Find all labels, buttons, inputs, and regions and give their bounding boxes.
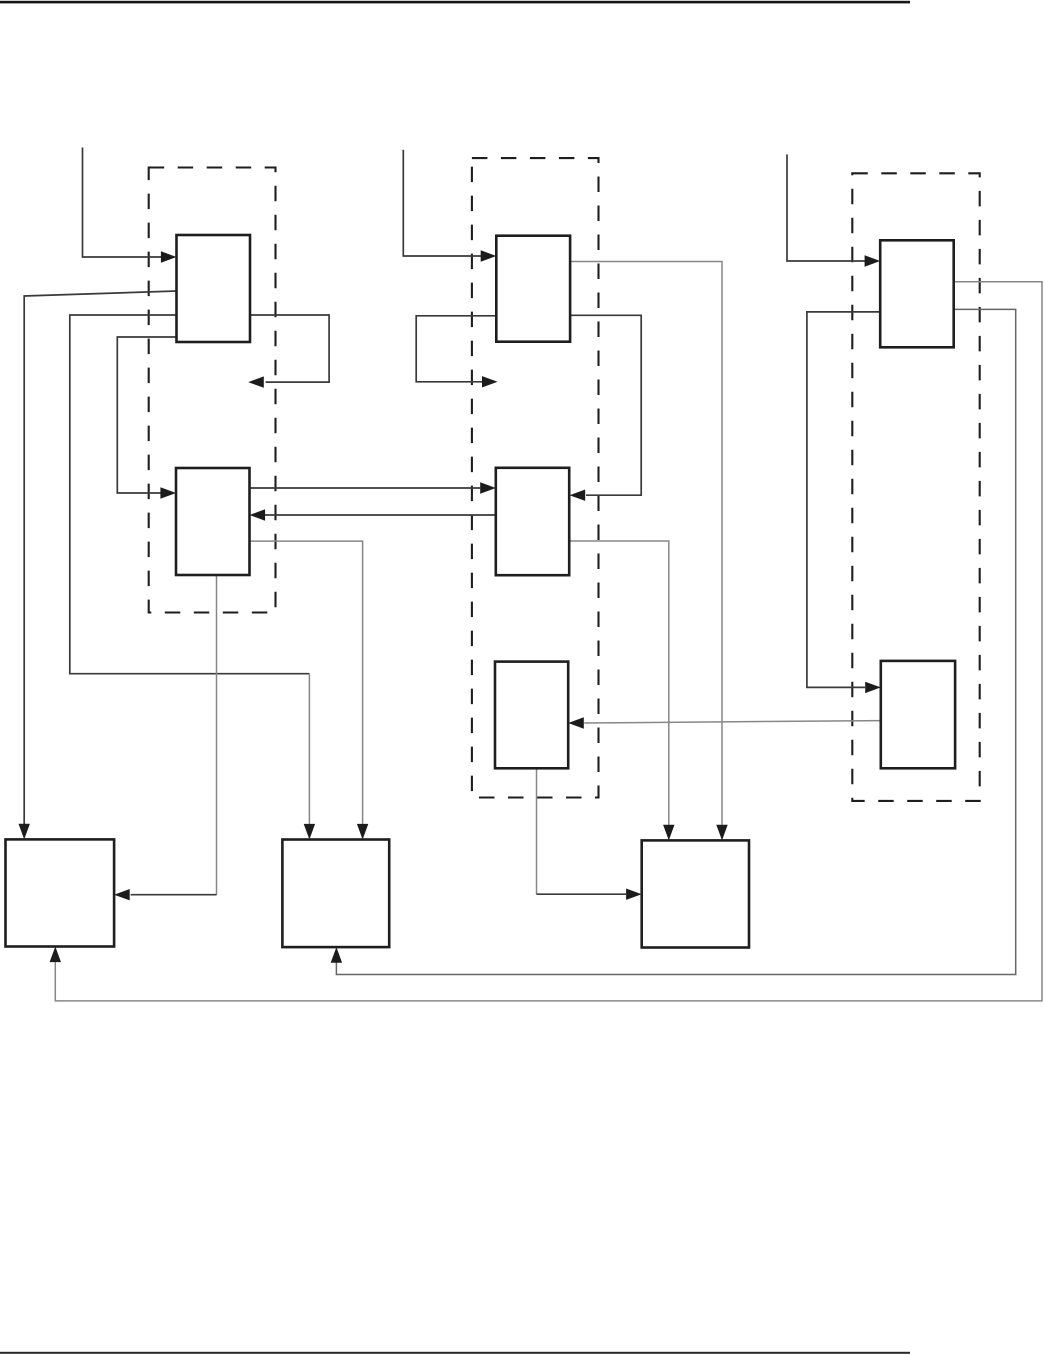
wire B1 left long to BL top: [24, 291, 176, 824]
block B2: [176, 468, 250, 575]
wire R1 left to R2 left: [807, 312, 880, 688]
arrow into M2 right: [570, 490, 586, 501]
header rule: [0, 1, 910, 4]
wire M2 left to B2 right: [265, 514, 496, 516]
block M3: [495, 662, 568, 769]
wire into BL right arrow: [131, 894, 217, 896]
arrow down into BL top: [19, 824, 30, 840]
block M2: [496, 468, 569, 575]
wire B1 left to B2 left: [117, 337, 176, 493]
wire M1 left loopback: [416, 316, 496, 382]
wire vertical into BML arrow 1: [308, 674, 310, 825]
block M1: [496, 236, 570, 342]
wire input stub into block B1: [83, 148, 162, 258]
wire M3 bottom down: [536, 768, 538, 894]
wire B2 right down to BML top: [250, 541, 363, 825]
arrow into B2 right: [250, 509, 266, 520]
arrow down into BMR top 2: [716, 825, 727, 841]
arrow into M1 left: [481, 250, 497, 261]
arrow down into BML top 1: [304, 824, 315, 840]
arrow right loopback middle module: [482, 376, 498, 387]
arrow into B1 left: [161, 251, 177, 262]
arrow into R2 left: [865, 682, 881, 693]
wire M2 right down to BMR top: [569, 541, 669, 825]
block BL: [6, 839, 115, 946]
block BML: [282, 840, 389, 948]
wire R1 right outer feedback to BL bottom: [55, 282, 1042, 1001]
block B1: [177, 235, 251, 342]
wire into BMR left arrow: [537, 893, 627, 895]
wire input stub into block M1: [403, 150, 481, 256]
block BMR: [642, 840, 749, 947]
wire B2 bottom down: [216, 575, 218, 895]
arrow into M2 left: [480, 482, 496, 493]
arrow down into BML top 2: [357, 824, 368, 840]
arrow into BMR left: [626, 889, 642, 900]
wire input stub into block R1: [787, 154, 865, 261]
wire B1 left down to BML top: [70, 315, 310, 674]
dashed module box right: [852, 173, 979, 801]
arrow down into BMR top 1: [663, 825, 674, 841]
arrow into BL right: [114, 889, 130, 900]
wire B2 right to M2 left: [250, 487, 481, 489]
arrow left loopback left module: [248, 376, 264, 387]
wire B1 right loopback: [250, 315, 329, 382]
wire R1 right inner feedback to BML bottom: [336, 309, 1015, 974]
wire M1 right down to BMR top: [570, 262, 722, 825]
footer rule: [0, 1352, 910, 1354]
wire R2 left to M3 right: [584, 721, 881, 723]
block R2: [881, 661, 955, 768]
dashed module box middle: [472, 158, 599, 797]
dashed module box left: [149, 168, 276, 613]
arrow up into BL bottom: [50, 947, 61, 963]
wire M1 right to M2 right: [570, 315, 641, 495]
arrow into B2 left: [160, 487, 176, 498]
arrow up into BML bottom: [331, 947, 342, 963]
arrow into R1 left: [865, 255, 881, 266]
block R1: [880, 240, 954, 347]
arrow into M3 right: [568, 717, 584, 728]
